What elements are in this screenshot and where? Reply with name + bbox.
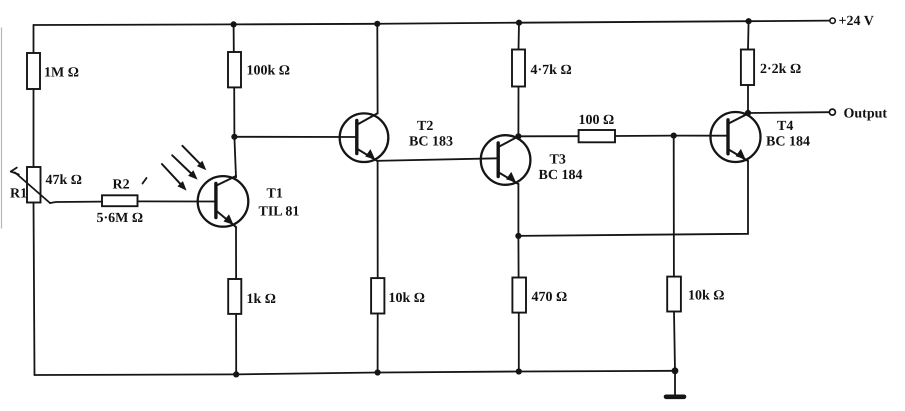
wire 10k to bottom rail <box>377 314 379 373</box>
wire node to 470 <box>517 236 519 278</box>
wire T1 emitter to 1k <box>235 227 237 279</box>
junction on rail at column 2 <box>231 21 237 27</box>
wire T3 collector node to 100 ohm <box>518 135 578 137</box>
label R2 <box>113 178 130 193</box>
wire 100k to T1 collector node <box>234 87 236 177</box>
label 10k mid <box>389 291 426 306</box>
svg-text:1k Ω: 1k Ω <box>247 292 277 307</box>
svg-text:TIL 81: TIL 81 <box>259 205 300 220</box>
label R1 <box>10 187 27 202</box>
wire rail to 100k <box>233 24 235 52</box>
wire rail to 2.2k <box>747 21 750 49</box>
svg-text:47k Ω: 47k Ω <box>46 173 83 188</box>
wire T2 emitter down to 10k <box>377 161 379 278</box>
label T1 <box>267 187 283 202</box>
svg-text:5·6M Ω: 5·6M Ω <box>97 211 144 226</box>
wire rail to T2 collector <box>376 24 378 114</box>
label BC 183 <box>409 135 453 150</box>
junction T3 emitter node <box>515 233 521 239</box>
wire left rail top <box>33 25 35 53</box>
svg-text:+24 V: +24 V <box>839 14 874 29</box>
svg-text:100k Ω: 100k Ω <box>247 64 291 79</box>
resistor 4.7k <box>512 50 525 87</box>
label 100k <box>247 64 291 79</box>
wire 1k to bottom rail <box>235 314 237 375</box>
svg-text:Output: Output <box>844 107 888 122</box>
label Output <box>844 107 888 122</box>
svg-text:T1: T1 <box>267 187 283 202</box>
svg-text:4·7k Ω: 4·7k Ω <box>531 63 572 78</box>
wire top supply rail <box>34 21 830 25</box>
ground <box>666 371 684 397</box>
transistor T4 BC 184 <box>711 112 761 162</box>
resistor 10k right <box>667 277 681 312</box>
wire T2 emitter to T3 base <box>378 158 499 161</box>
svg-text:BC 183: BC 183 <box>409 135 453 150</box>
label 4.7k <box>531 63 572 78</box>
svg-text:BC 184: BC 184 <box>539 168 583 183</box>
svg-text:1M Ω: 1M Ω <box>44 66 79 81</box>
stray tick mark <box>143 178 147 184</box>
resistor 100k <box>228 52 241 87</box>
label T2 <box>417 119 433 134</box>
label 100 ohm <box>579 113 615 128</box>
resistor 100 ohm <box>579 130 615 142</box>
junction T3 collector node <box>515 133 521 139</box>
wire R2 to T1 base <box>138 200 217 202</box>
wire 4.7k to T3 collector node <box>517 87 519 137</box>
svg-text:R2: R2 <box>113 178 130 193</box>
resistor R2 <box>102 195 138 206</box>
junction on rail at column 3 <box>374 21 380 27</box>
wire T3 emitter to node <box>517 184 519 236</box>
resistor 470 <box>512 278 526 313</box>
wire 10k right to bottom rail <box>674 312 675 371</box>
phototransistor T1 TIL 81 <box>198 176 249 227</box>
resistor 1k <box>228 279 241 314</box>
wire T4 base node down to 10k right <box>673 136 675 277</box>
svg-text:T3: T3 <box>550 153 566 168</box>
wire T4 collector to output terminal <box>748 111 829 114</box>
+24 V terminal <box>830 18 835 23</box>
wire rail to 4.7k <box>518 23 521 50</box>
svg-text:100 Ω: 100 Ω <box>579 113 615 128</box>
resistor 10k mid <box>371 278 384 313</box>
svg-text:T4: T4 <box>777 119 793 134</box>
label TIL 81 <box>259 205 300 220</box>
svg-text:2·2k Ω: 2·2k Ω <box>760 62 801 77</box>
wire 470 to bottom rail <box>518 313 520 372</box>
label T4 <box>777 119 793 134</box>
wire R1 below <box>34 203 35 376</box>
wire 2.2k to T4 collector node <box>747 85 749 113</box>
junction bottom rail col 2 <box>233 371 239 377</box>
junction bottom rail ground node <box>672 367 679 374</box>
wire T1 collector node to T2 base <box>234 136 356 138</box>
svg-text:T2: T2 <box>417 119 433 134</box>
light arrows <box>162 146 206 191</box>
label +24 V <box>839 14 874 29</box>
svg-text:470 Ω: 470 Ω <box>532 290 568 305</box>
junction T4 base node <box>671 133 677 139</box>
resistor 1M <box>27 53 40 89</box>
label 10k right <box>688 289 725 304</box>
junction bottom rail col 3 <box>375 369 381 375</box>
junction on rail at column 6 <box>746 18 752 24</box>
label 1k <box>247 292 277 307</box>
svg-text:10k Ω: 10k Ω <box>688 289 725 304</box>
junction T4 collector node <box>745 110 751 116</box>
wire 100 ohm to T4 base <box>615 135 728 137</box>
svg-text:BC 184: BC 184 <box>766 135 810 150</box>
junction on rail at column 4 <box>516 20 522 26</box>
label 1M <box>44 66 79 81</box>
wire T4 emitter down and left to T3 emitter node <box>518 161 748 236</box>
wire R1 wiper to R2 <box>50 202 102 203</box>
resistor 2.2k <box>741 50 754 86</box>
wire 1M to R1 <box>33 89 35 167</box>
label 47k <box>46 173 83 188</box>
svg-text:R1: R1 <box>10 187 27 202</box>
label 470 <box>532 290 568 305</box>
svg-text:10k Ω: 10k Ω <box>389 291 426 306</box>
Output terminal <box>829 109 835 115</box>
wire bottom rail <box>35 371 676 375</box>
label T3 <box>550 153 566 168</box>
label 5.6M <box>97 211 144 226</box>
label BC 184 <box>539 168 583 183</box>
transistor T2 BC 183 <box>340 113 389 162</box>
junction bottom rail col 4 <box>516 368 522 374</box>
label BC 184 right <box>766 135 810 150</box>
label 2.2k <box>760 62 801 77</box>
junction T1 collector node <box>231 134 237 140</box>
transistor T3 BC 184 <box>481 135 531 185</box>
scan edge artifact <box>1 28 3 228</box>
rheostat R1 <box>11 167 50 203</box>
